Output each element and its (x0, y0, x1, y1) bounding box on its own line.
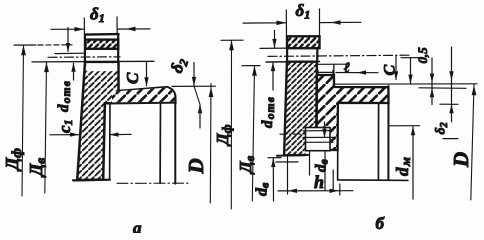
plate side edges through bolt hole (fig b) (286, 48, 288, 62)
svg-text:c1: c1 (55, 119, 75, 133)
dimension delta1 (fig b) (243, 22, 286, 24)
dimension Dv line (45, 62, 47, 193)
flange bore gap line (109, 103, 111, 180)
svg-text:Дв: Дв (236, 155, 257, 175)
pipe bore end edge (fig b) (377, 103, 379, 179)
delta2 underline mark (443, 138, 458, 140)
bolt hole axis (dash-dot) (48, 56, 120, 59)
flange plate body (fig b, hatched) (284, 62, 317, 156)
bolt hole axis (fig b, dash-dot) (268, 55, 409, 56)
dimension delta1 ext lines (83, 18, 85, 35)
flange+pipe section body (hatched) (77, 62, 175, 180)
dimension Df line (22, 45, 24, 196)
d_v extension bars (268, 157, 281, 159)
pipe outer end edge (174, 96, 176, 184)
notch top edge / extension (317, 63, 349, 65)
svg-text:h: h (314, 172, 324, 192)
dimension d_otv arrows (67, 28, 69, 52)
pipe top extension line (172, 85, 216, 87)
svg-text:δ1: δ1 (90, 5, 105, 26)
bolt hole top extension (fig b) (260, 47, 287, 49)
notch right edge (333, 64, 335, 75)
plate side edges through bolt hole (fig a) (84, 35, 86, 63)
dimension C (146, 62, 148, 86)
dimension Df extension bar (14, 44, 36, 46)
svg-text:0,5: 0,5 (415, 47, 430, 64)
bolt hole top extension line (55, 52, 84, 54)
dimension d_otv arrows (fig b) (274, 31, 276, 48)
svg-text:dв: dв (254, 182, 272, 196)
dimension C (fig b) (401, 57, 419, 59)
pipe bore end edge (159, 103, 161, 183)
svg-text:dм: dм (393, 156, 413, 176)
dimension D (fig b) (471, 85, 474, 200)
flange bottom edge (fig b) (277, 154, 308, 157)
svg-text:C: C (382, 65, 399, 76)
flange bottom edge (73, 179, 110, 182)
svg-text:D: D (184, 158, 208, 174)
dimension delta2 (fig b) (451, 47, 453, 122)
band bottom extension (440, 103, 458, 105)
dimension l in notch (317, 70, 319, 75)
dimension delta1 lines + arrows (51, 28, 84, 30)
flange top hatched band (fig b) (287, 36, 320, 48)
pipe axis (dash-dot) (117, 182, 189, 184)
dimension D (fig a) (209, 84, 212, 203)
dimension 0.5 (431, 58, 433, 105)
threaded box outline (306, 128, 331, 151)
d_v2 arrow into thread box (324, 122, 326, 137)
svg-text:D: D (449, 152, 473, 168)
flange top edge (85, 33, 119, 36)
svg-text:Дв: Дв (26, 158, 48, 178)
dimension h (287, 156, 289, 194)
stub-end collar and pipe (hatched) (317, 75, 389, 150)
dimension c1 (50, 134, 79, 136)
box lower verticals (309, 152, 311, 176)
dimension delta1 ext lines (fig b) (285, 10, 287, 36)
svg-text:dотв: dотв (260, 96, 277, 128)
bolt hole bottom edge / face extension line (32, 60, 154, 63)
collar bore edge (337, 103, 339, 180)
flange face second line (419, 87, 466, 90)
svg-text:δ2: δ2 (434, 122, 451, 134)
dimension d_m (389, 125, 420, 127)
dimension delta2 (fig a) (193, 63, 195, 86)
svg-text:dв: dв (314, 159, 331, 172)
svg-text:C: C (123, 72, 142, 84)
svg-text:δ2: δ2 (167, 55, 192, 75)
pipe band chunky hatch overlay (fig a) (112, 88, 175, 103)
collar face extension line (334, 83, 477, 85)
svg-text:ℓ: ℓ (344, 61, 350, 76)
dimension d_v (fig b) (272, 158, 274, 201)
dimension Dv (fig b) (242, 65, 260, 67)
svg-text:Дф: Дф (2, 148, 24, 172)
pipe outer end edge (fig b) (387, 86, 389, 180)
svg-text:Дф: Дф (213, 124, 234, 147)
bore bottom line (338, 179, 408, 182)
svg-text:а: а (133, 219, 142, 234)
dimension Df (fig b) (221, 39, 243, 41)
flange top hatched band (85, 40, 118, 49)
bolt hole bottom edge (fig b) (266, 61, 320, 64)
svg-text:dотв: dотв (56, 80, 73, 112)
plate hatch margin (86, 63, 117, 71)
white region below box (306, 150, 331, 157)
svg-text:б: б (376, 214, 386, 233)
svg-text:δ1: δ1 (296, 1, 311, 22)
thread lines (303, 130, 333, 132)
